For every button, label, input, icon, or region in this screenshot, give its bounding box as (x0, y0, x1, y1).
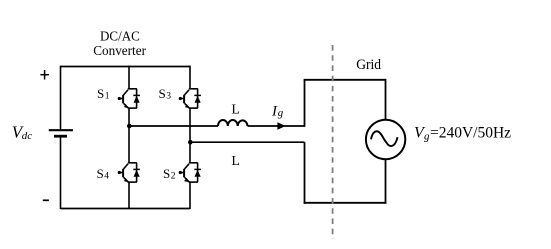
svg-text:S: S (163, 166, 170, 181)
transistor S3 (IGBT with anti-parallel diode) (179, 89, 201, 109)
svg-text:Grid: Grid (356, 57, 381, 73)
label Vdc (12, 123, 33, 142)
wire right leg middle (189, 108, 191, 163)
label + (positive terminal) (40, 70, 49, 80)
wire upper output left of inductor (129, 125, 218, 127)
node upper output junction (127, 124, 132, 129)
svg-text:1: 1 (105, 92, 110, 102)
wire grid left riser upper (304, 80, 306, 127)
svg-text:DC/AC: DC/AC (100, 30, 140, 45)
label S1 (97, 86, 110, 102)
ac source sine wave (371, 131, 398, 146)
svg-text:L: L (231, 154, 240, 169)
svg-text:g: g (278, 107, 284, 119)
dc source Vdc battery plate long (49, 129, 73, 131)
current arrow Ig (277, 122, 285, 129)
svg-text:Converter: Converter (93, 44, 146, 59)
label - (negative terminal) (43, 199, 49, 201)
label DC/AC Converter (93, 30, 146, 60)
transistor S4 (IGBT with anti-parallel diode) (118, 163, 140, 183)
label Ig (271, 104, 284, 120)
wire left leg lower (128, 182, 130, 209)
svg-text:S: S (159, 86, 166, 101)
grid boundary dashed line (332, 45, 334, 239)
svg-text:=240V/50Hz: =240V/50Hz (430, 124, 511, 141)
wire grid top (304, 79, 386, 81)
transistor S1 (IGBT with anti-parallel diode) (118, 89, 140, 109)
svg-text:S: S (97, 166, 104, 181)
wire grid right upper (385, 79, 387, 120)
wire left bottom (battery -) (60, 136, 62, 209)
ac source Vg circle (366, 120, 405, 159)
wire upper output right of inductor (248, 125, 305, 127)
svg-text:S: S (97, 86, 104, 101)
wire left top (battery +) (60, 66, 62, 130)
wire lower output (190, 141, 305, 143)
svg-text:dc: dc (22, 130, 33, 142)
svg-text:4: 4 (104, 172, 109, 182)
label S3 (159, 86, 172, 102)
wire right leg lower (189, 182, 191, 209)
wire grid bottom (304, 202, 387, 204)
svg-text:2: 2 (171, 172, 176, 182)
node lower output junction (188, 140, 193, 145)
label S2 (163, 166, 176, 182)
dc source Vdc battery plate short (54, 135, 67, 138)
svg-text:L: L (231, 102, 240, 117)
transistor S2 (IGBT with anti-parallel diode) (179, 163, 201, 183)
wire bottom rail (61, 208, 191, 210)
inductor L upper (218, 120, 248, 126)
label Vg=240V/50Hz (414, 124, 511, 142)
svg-text:3: 3 (166, 92, 171, 102)
label S4 (97, 166, 110, 182)
wire left leg upper (128, 66, 130, 89)
wire grid right lower (385, 159, 387, 204)
wire top rail (61, 66, 191, 68)
wire right leg upper (189, 66, 191, 89)
wire grid left riser lower (304, 142, 306, 204)
wire left leg middle (128, 108, 130, 163)
